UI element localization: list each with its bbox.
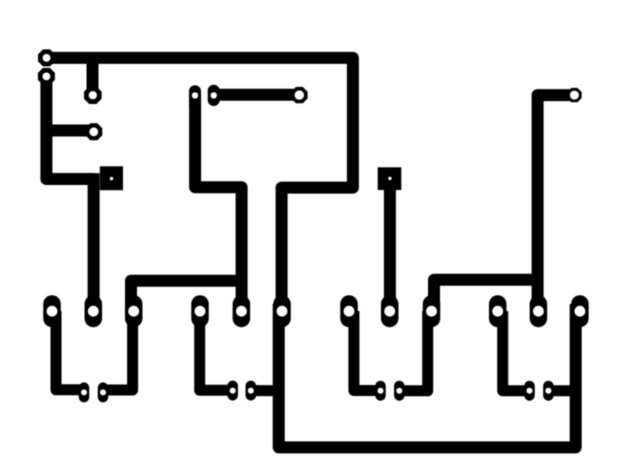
pad P6 oblong pad left end of link bar — [208, 85, 220, 106]
pad P4 octagonal through-hole pad — [85, 123, 102, 140]
wire cluster-3 from small pad SP6 right and up to pad P16 — [399, 311, 427, 391]
drill hole pad P10 — [277, 306, 288, 317]
pad P10 oblong pad, bottom row — [273, 295, 291, 327]
wire cluster-1 from small pad SP2 right and up to pad P11 — [103, 311, 133, 390]
drill hole pad P8b — [47, 306, 58, 317]
wire net-C S-bend from pad P5 down, right, down to pad P12 — [195, 95, 242, 311]
wire link bar between pad P6 and pad P7 — [214, 89, 299, 101]
square pad S2 (pin-1 marker) — [378, 167, 402, 190]
wire stub from net-B vertical right to pad P4 — [46, 125, 93, 137]
pad P16 oblong pad, bottom row — [423, 295, 441, 327]
wire net-A top rail from pad P1 to right corner, down, left, down to pad row — [47, 58, 353, 311]
wire stub from top rail down to pad P3 — [87, 58, 99, 95]
pad SP5 small oblong pad — [375, 381, 386, 401]
drill hole — [295, 90, 304, 99]
drill hole pad SP4 — [248, 388, 254, 394]
pad P20 oblong pad, bottom row — [571, 295, 589, 327]
pad P3 octagonal through-hole pad — [84, 86, 102, 104]
drill hole — [43, 54, 51, 62]
pad P12 oblong pad, bottom row — [233, 295, 251, 327]
wire cluster-1 from pad P8b down and right to small pad SP1 — [56, 311, 84, 390]
pad SP3 small oblong pad — [227, 381, 238, 401]
wire net-B from pad P2 down and right to square pad S1 — [46, 76, 95, 179]
pad P5 oblong pad at top of net-C — [189, 85, 201, 111]
drill hole pad P17 — [492, 306, 503, 317]
pad P11 oblong pad, bottom row — [125, 295, 143, 327]
drill hole pad P12 — [236, 306, 247, 317]
drill hole square pad S1 — [110, 177, 113, 180]
drill hole pad SP2 — [100, 389, 106, 395]
drill hole pad SP8 — [545, 388, 551, 394]
pad SP8 small oblong pad — [543, 381, 554, 401]
wire cluster-2 from pad P13 down and right to small pad SP3 — [200, 311, 233, 390]
drill hole — [211, 92, 217, 98]
drill hole pad SP1 — [81, 389, 87, 395]
drill hole — [89, 91, 97, 99]
drill hole — [89, 127, 98, 136]
wire net-A lower run: down from pad row to bottom rail, right, up to pad P20 — [279, 304, 576, 447]
pad P8 octagonal through-hole pad — [567, 88, 581, 102]
wire cluster-2 from small pad SP4 right to net-A vertical — [251, 385, 280, 396]
drill hole pad SP5 — [378, 388, 384, 394]
pad P18 oblong pad, bottom row — [530, 295, 548, 327]
pad SP1 small oblong pad — [79, 382, 90, 402]
drill hole pad SP7 — [527, 388, 533, 394]
drill hole pad SP3 — [230, 388, 236, 394]
wire net-E branch from pad P16 up and right joining vertical — [434, 280, 532, 311]
drill hole pad P14 — [344, 306, 355, 317]
drill hole pad P13 — [195, 306, 206, 317]
drill hole square pad S2 — [388, 177, 391, 180]
wire net-B vertical from square pad S1 down to pad P9 — [88, 173, 100, 311]
drill hole pad P11 — [128, 306, 139, 317]
pad SP4 small oblong pad — [246, 381, 256, 401]
wire cluster-4 from pad P17 down and right to small pad SP7 — [503, 311, 530, 391]
pad P14 oblong pad, bottom row — [340, 295, 358, 327]
drill hole pad SP6 — [396, 388, 402, 394]
pad P8b oblong pad, bottom row — [43, 295, 61, 327]
drill hole pad P15 — [384, 306, 395, 317]
pad P2 octagonal through-hole pad — [38, 68, 55, 85]
pad P13 oblong pad, bottom row — [191, 295, 209, 327]
drill hole — [570, 91, 579, 100]
pad P15 oblong pad, bottom row — [381, 295, 399, 327]
drill hole pad P9 — [88, 306, 99, 317]
drill hole — [43, 73, 51, 81]
drill hole pad P20 — [575, 306, 586, 317]
drill hole pad P18 — [533, 306, 544, 317]
pad SP6 small oblong pad — [394, 381, 405, 401]
pad P17 oblong pad, bottom row — [489, 295, 507, 327]
pad P1 octagonal through-hole pad — [38, 49, 55, 66]
drill hole pad P16 — [426, 306, 437, 317]
wire cluster-3 from pad P14 down and right to small pad SP5 — [354, 311, 381, 391]
drill hole — [192, 92, 198, 98]
pad SP2 small oblong pad — [98, 382, 109, 402]
wire from pad P11 up and right joining net-C vertical — [131, 281, 242, 311]
wire from square pad S2 down to pad P15 — [384, 189, 396, 311]
pad P7 octagonal through-hole pad — [291, 87, 307, 103]
wire cluster-4 from small pad SP8 right to net-A vertical — [548, 385, 577, 396]
pad SP7 small oblong pad — [524, 381, 535, 401]
square pad S1 (pin-1 marker) — [100, 166, 123, 190]
wire net-E from pad P8 left and down to pad P18 — [538, 95, 575, 311]
pad P9 oblong pad, bottom row — [85, 295, 103, 327]
